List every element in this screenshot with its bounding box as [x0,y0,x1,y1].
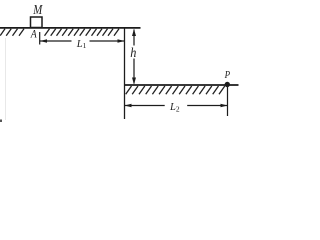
L2 dimension arrow line [125,105,165,107]
svg-text:L2: L2 [169,102,180,113]
svg-text:L1: L1 [76,39,87,50]
L1 right arrowhead [118,39,125,43]
upper surface hatching [0,29,119,36]
svg-text:A: A [30,28,37,41]
L2 left arrowhead [125,104,132,108]
h dimension arrow line [133,30,135,46]
svg-text:P: P [224,69,230,81]
L2 right arrowhead [221,104,228,108]
L2 right extension line below P [227,86,229,116]
L1 dimension left tick [39,32,41,45]
faint scan fold line left margin [5,38,7,120]
lower platform surface line [124,84,239,86]
lower surface hatching [126,86,225,94]
svg-text:M: M [32,2,43,17]
L1 dimension arrow line [40,40,72,42]
h top arrowhead [132,29,136,36]
step edge vertical line (also L2 left extension) [124,28,126,120]
svg-text:h: h [130,44,137,60]
L1 left arrowhead [40,39,47,43]
point P dot [225,82,230,87]
h bottom arrowhead [132,78,136,85]
upper platform surface line [0,27,141,29]
scan speck bottom-left corner [0,120,2,123]
block M (rectangle on upper surface) [31,17,43,28]
